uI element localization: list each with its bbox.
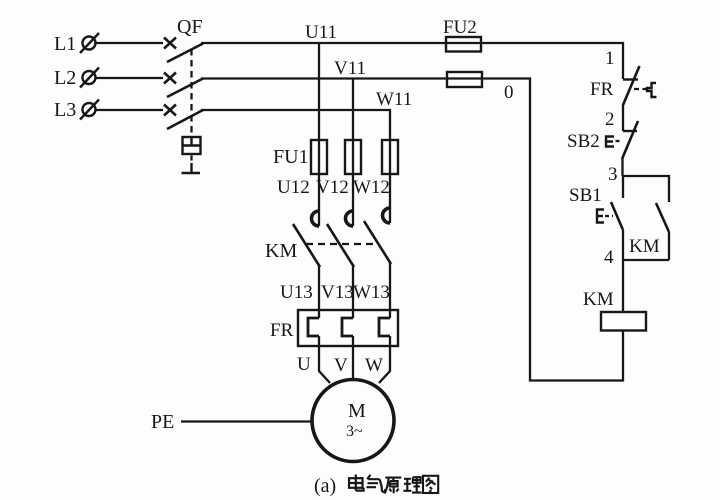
relay FR NC dashed link (634, 88, 647, 90)
relay FR NC contact blade (623, 66, 640, 105)
svg-text:V12: V12 (316, 177, 349, 198)
fuse FU2 upper (446, 37, 481, 52)
svg-text:2: 2 (605, 109, 615, 130)
node W12 label (353, 177, 390, 198)
breaker QF trip unit box (183, 137, 201, 154)
breaker QF label (177, 16, 203, 38)
contactor KM linkage dashed (306, 243, 376, 245)
contactor KM pole U fixed contact (312, 211, 319, 226)
svg-text:(a): (a) (314, 475, 336, 497)
svg-text:3~: 3~ (346, 423, 363, 440)
svg-text:KM: KM (265, 240, 297, 262)
contactor KM pole W fixed contact (383, 208, 390, 223)
svg-text:KM: KM (583, 289, 614, 310)
contact KM aux blade (656, 203, 669, 232)
terminal L1 (80, 33, 99, 53)
node L2 label (54, 67, 76, 89)
wire SB1 to coil (622, 230, 624, 312)
svg-text:U13: U13 (280, 282, 313, 303)
wire heater W to motor (379, 336, 390, 383)
motor terminal W label (365, 355, 383, 376)
breaker QF pole 1 blade (167, 44, 203, 63)
contactor KM pole U blade (293, 224, 320, 267)
contactor KM pole V fixed contact (346, 211, 353, 226)
svg-text:FR: FR (270, 320, 294, 341)
caption char tu (423, 476, 438, 493)
fuse FU2 lower (447, 72, 482, 87)
svg-text:4: 4 (604, 247, 614, 268)
wire PE to motor (181, 420, 312, 422)
button SB1 dashed link (605, 215, 613, 217)
button SB2 dashed link (616, 140, 622, 142)
wire node3 to SB1 (622, 176, 624, 198)
terminal L2 (80, 68, 99, 88)
svg-text:W11: W11 (376, 89, 412, 110)
contact KM aux label (629, 236, 660, 257)
breaker QF pole 3 contact cross (164, 105, 176, 116)
wire contact U down (318, 266, 320, 318)
button SB2 blade (622, 121, 638, 159)
fuse FU1 pole U (311, 140, 327, 174)
node V13 label (321, 282, 354, 303)
svg-text:L2: L2 (54, 67, 76, 89)
svg-text:FU1: FU1 (273, 146, 309, 168)
relay FR NC label (590, 79, 614, 100)
node W13 label (353, 282, 390, 303)
node 4 label (604, 247, 614, 268)
contactor KM pole V blade (327, 224, 354, 267)
wire heater V to motor (352, 336, 354, 380)
svg-text:V13: V13 (321, 282, 354, 303)
node 2 label (605, 109, 615, 130)
wire fuse V to contact (352, 174, 354, 226)
fuse FU1 pole W (382, 140, 398, 174)
node 1 label (605, 48, 615, 69)
breaker QF handle symbol (182, 156, 201, 174)
node L1 label (54, 33, 76, 55)
caption char qi (367, 475, 386, 492)
node 3 label (608, 164, 618, 185)
fuse FU1 label (273, 146, 309, 168)
motor terminal V label (334, 355, 348, 376)
svg-text:W: W (365, 355, 383, 376)
wire contact W down (389, 263, 391, 318)
svg-text:PE: PE (151, 411, 174, 433)
button SB1 actuator (597, 210, 604, 223)
node W11 label (376, 89, 412, 110)
wire row1 QF to right corner (201, 43, 623, 79)
svg-text:QF: QF (177, 16, 203, 38)
motor M1 label 3~ (346, 423, 363, 440)
wire SB2 to node3 (621, 158, 623, 176)
svg-text:0: 0 (504, 82, 514, 103)
wire U11 drop (318, 44, 320, 140)
wire KM aux to node4 (668, 232, 670, 260)
node U11 label (305, 22, 337, 43)
svg-text:W13: W13 (353, 282, 390, 303)
breaker QF pole 2 contact cross (164, 73, 176, 84)
fuse FU2 label (443, 17, 477, 38)
wire contact V down (352, 266, 354, 318)
relay FR trip symbol (647, 83, 657, 97)
svg-text:V11: V11 (334, 58, 366, 79)
wire row2 QF to fuse FU2b and node 0 loop (201, 79, 623, 381)
relay FR NC contact fixed tick (623, 78, 638, 80)
svg-text:V: V (334, 355, 348, 376)
relay FR box (298, 310, 398, 346)
caption char yuan (385, 478, 402, 494)
svg-text:L3: L3 (54, 99, 76, 121)
svg-text:KM: KM (629, 236, 660, 257)
relay FR heater U (308, 318, 319, 336)
svg-text:3: 3 (608, 164, 618, 185)
svg-text:SB2: SB2 (567, 131, 600, 152)
svg-text:U11: U11 (305, 22, 337, 43)
node L3 label (54, 99, 76, 121)
node V11 label (334, 58, 366, 79)
button SB2 fixed tick (623, 130, 637, 132)
coil KM label (583, 289, 614, 310)
svg-text:1: 1 (605, 48, 615, 69)
node 0 label (504, 82, 514, 103)
fuse FU1 pole V (345, 140, 361, 174)
svg-text:M: M (348, 400, 366, 422)
wire L2 to QF (96, 77, 163, 79)
breaker QF pole 3 blade (167, 110, 203, 129)
svg-text:SB1: SB1 (569, 185, 602, 206)
svg-text:W12: W12 (353, 177, 390, 198)
svg-text:U12: U12 (277, 177, 310, 198)
node U13 label (280, 282, 313, 303)
motor M1 circle (312, 380, 394, 462)
contactor KM main label (265, 240, 297, 262)
caption char li (403, 477, 421, 492)
coil KM box (601, 312, 646, 331)
motor M1 label M (348, 400, 366, 422)
wire node1 to node2 (622, 104, 624, 131)
wire L1 to QF (96, 42, 163, 44)
button SB2 actuator (606, 137, 614, 147)
relay FR heater W (379, 318, 390, 336)
wire heater U to motor (319, 336, 330, 383)
wire fuse W to contact (389, 174, 391, 223)
breaker QF pole 2 blade (167, 79, 203, 98)
wire row3 QF to W11 drop (201, 110, 390, 140)
wire V11 drop (352, 79, 354, 140)
relay FR heater V (342, 318, 353, 336)
button SB1 label (569, 185, 602, 206)
button SB1 blade (611, 202, 623, 230)
svg-text:FR: FR (590, 79, 614, 100)
caption char dian (349, 475, 364, 491)
wire fuse U to contact (318, 174, 320, 226)
contactor KM pole W blade (364, 221, 391, 264)
svg-text:FU2: FU2 (443, 17, 477, 38)
node U12 label (277, 177, 310, 198)
button SB2 label (567, 131, 600, 152)
node V12 label (316, 177, 349, 198)
breaker QF pole 1 contact cross (164, 38, 176, 49)
wire node4 (623, 259, 669, 261)
terminal L3 (80, 100, 99, 120)
relay FR label (270, 320, 294, 341)
wire L3 to QF (96, 109, 163, 111)
wire node3 branch (623, 176, 669, 202)
svg-text:L1: L1 (54, 33, 76, 55)
node PE label (151, 411, 174, 433)
caption (a) (314, 475, 336, 497)
motor terminal U label (297, 354, 311, 375)
svg-text:U: U (297, 354, 311, 375)
breaker QF linkage dashed (190, 49, 192, 136)
